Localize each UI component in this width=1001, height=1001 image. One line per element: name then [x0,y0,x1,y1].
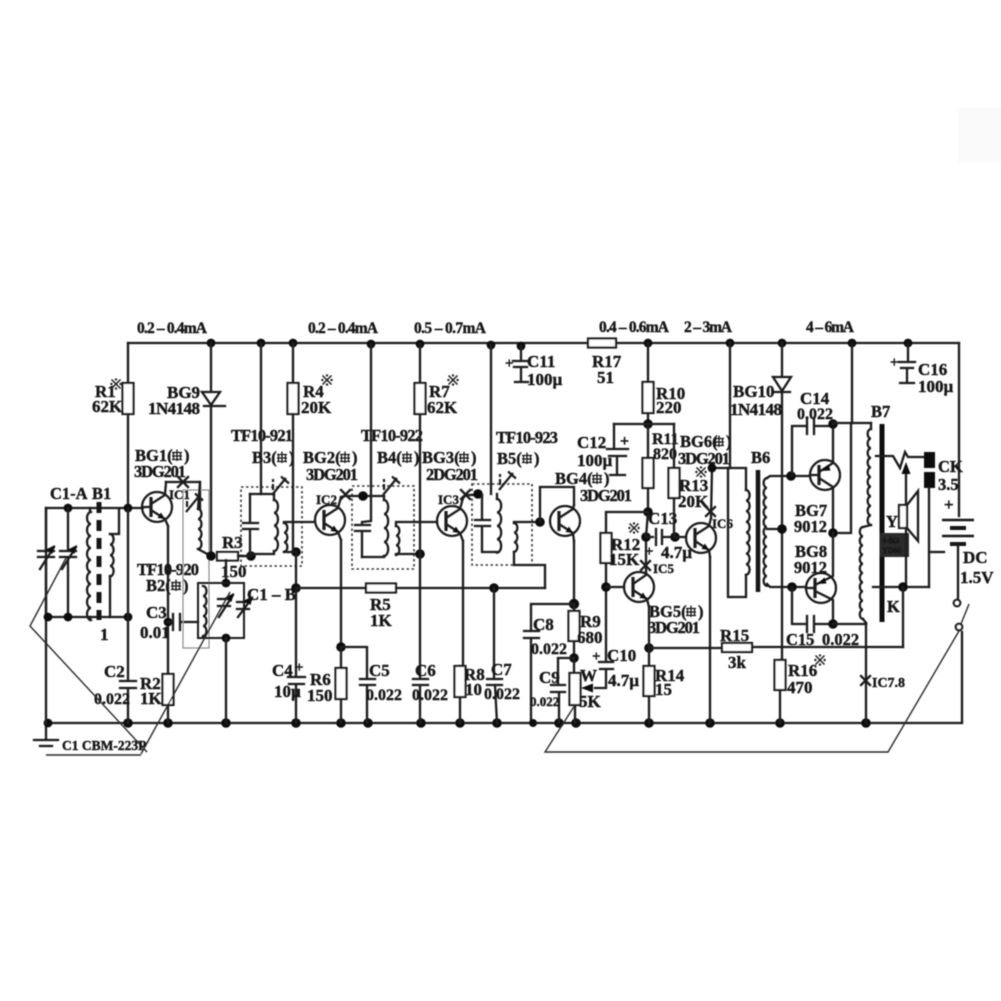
resistor R8 [455,666,466,697]
diode BG9 [202,343,225,556]
svg-text:IC6: IC6 [712,516,733,531]
wire AGC line right [396,587,545,589]
node dot BG5 base [601,582,611,592]
wire C1-B to ground bus [225,638,227,723]
diode BG10 [773,343,791,529]
svg-text:+: + [620,433,629,450]
oscillator coil B2 [198,509,202,549]
svg-text:20K: 20K [678,492,709,511]
current break IC2 (x) [341,490,350,499]
wire bus drop to B6 primary [729,343,731,468]
svg-text:C11: C11 [527,352,555,371]
svg-text:3.5: 3.5 [938,475,959,494]
svg-text:): ) [183,576,189,595]
gang link line C1-B [141,592,230,754]
wire BG4 emitter down to detector node [573,541,575,604]
resistor R9 [573,604,575,658]
wire bottom ground bus [46,722,962,724]
node dot C1-B bottom [222,634,231,643]
transformer B3 secondary coil [284,523,287,552]
resistor R1 [127,343,129,508]
svg-text:+: + [505,356,514,372]
capacitor C5 [341,647,375,723]
resistor R3 [217,552,238,561]
tuning slug B3 [272,477,289,496]
oscillator B2 shield box (thin) [183,490,209,648]
wire BG2 collector to B4 primary [341,496,384,497]
svg-text:C9: C9 [539,668,560,687]
wire feedback from R15 [902,587,904,647]
capacitor in B5 (tank) [475,495,497,552]
transformer B4 primary bottom rail [362,556,384,557]
svg-text:C1-A: C1-A [50,484,88,503]
wire center tap drop [833,423,851,533]
svg-text:C5: C5 [369,661,390,680]
transistor BG4 [550,505,580,541]
transformer B3 primary top rail [250,493,274,495]
svg-text:0.5 – 0.7mA: 0.5 – 0.7mA [414,320,487,337]
earphone jack CK3.5 [924,452,935,468]
svg-text:R3: R3 [222,533,243,552]
svg-text:IC5: IC5 [653,561,674,576]
svg-text:0.4 – 0.6mA: 0.4 – 0.6mA [599,319,670,336]
svg-text:B2(: B2( [146,576,171,595]
wire bus drop to B5 [490,345,492,494]
svg-text:0.2 – 0.4mA: 0.2 – 0.4mA [137,320,208,337]
transformer B3 primary bottom rail [238,551,274,556]
svg-text:1N4148: 1N4148 [730,400,782,419]
svg-text:62K: 62K [92,397,123,416]
transistor BG3 [437,498,467,541]
svg-text:0.022: 0.022 [366,687,402,704]
svg-text:1K: 1K [370,611,393,630]
transformer B3 primary coil [273,494,275,500]
capacitor C8 [524,604,574,723]
resistor R5 [366,584,396,593]
svg-text:C7: C7 [491,660,512,679]
resistor R7 [419,344,421,554]
svg-text:0.022: 0.022 [797,406,833,423]
wire jack return [928,488,930,587]
tuning slug B4 [383,477,400,496]
capacitor C3 [164,618,173,627]
svg-text:470: 470 [787,678,813,697]
tuning slug B2 [186,494,203,513]
callout underline C1 [46,754,141,756]
transformer B7 secondary winding [863,525,871,527]
node dot R9 bottom [569,653,579,663]
transformer B3 shield box [241,487,302,566]
svg-text:C12: C12 [577,433,606,452]
wire bias down to AGC line [295,552,297,588]
wire BG3 emitter down [460,541,463,723]
svg-text:B1: B1 [92,484,111,503]
capacitor C15 [792,587,833,632]
svg-text:62K: 62K [427,398,458,417]
switch K [954,600,961,607]
transformer B6 primary [730,468,746,490]
svg-text:3k: 3k [728,653,747,672]
wire B7 bottom to ground [865,623,867,723]
node dot C14/B7 top [828,419,838,429]
current break IC1 [178,477,188,487]
svg-text:4-8Ω: 4-8Ω [882,536,899,545]
node dot detector output [569,599,579,609]
variable capacitor C1-B gang [218,599,249,609]
transformer B5 shield box [472,484,532,565]
wire bus drop x=852 [851,343,853,423]
resistor R17 (inline) [588,339,616,348]
svg-text:680: 680 [577,628,603,647]
svg-text:R15: R15 [720,626,749,645]
current break IC6 (x) [706,507,715,516]
svg-text:3DG201: 3DG201 [580,486,632,505]
node dot push-pull center [828,528,838,538]
wire BG5 collector up [645,537,647,572]
svg-text:B4(: B4( [377,448,402,467]
svg-text:YD66: YD66 [882,546,902,555]
wire switch to ground bus [961,632,963,722]
wire B6 secondary center tap [767,528,782,530]
svg-text:0.022: 0.022 [484,686,520,703]
gang link line C1-A [30,558,147,752]
svg-text:0.022: 0.022 [412,687,448,704]
wire B5 secondary top to BG4 base [514,522,540,523]
transformer B4 secondary coil [396,526,399,555]
svg-text:C3: C3 [146,603,167,622]
wire BG8 collector to B7 bottom [833,623,866,625]
capacitor in B3 (tank) [243,494,258,554]
svg-text:9012: 9012 [794,558,827,577]
svg-text:2DG201: 2DG201 [426,465,478,484]
svg-text:): ) [414,448,420,467]
variable capacitor C1-A trimmer [60,508,76,617]
svg-text:15: 15 [655,680,672,699]
transformer B4 primary coil [383,496,385,500]
svg-text:3DG201: 3DG201 [306,465,358,484]
transformer B1 core (dashed bar) [97,502,102,620]
svg-text:10µ: 10µ [274,682,301,701]
wire B3 secondary top to BG2 base [284,522,315,523]
svg-text:+: + [890,355,899,371]
ground symbol [34,723,58,746]
current break IC5 (x) [641,561,650,570]
wire to C1-B box [225,560,227,583]
resistor R14 [644,643,654,653]
svg-text:0.022: 0.022 [530,694,559,709]
transformer B4 shield box [352,486,414,569]
wire BG3 collector to B5 [463,495,482,498]
svg-text:220: 220 [656,398,682,417]
potentiometer W 5K [574,658,575,723]
speaker spec block [880,533,909,557]
wire BG2 emitter down [340,540,342,647]
wire antenna top rail [46,507,143,509]
resistor R16 [780,529,782,723]
transformer B7 core bar [880,424,885,622]
node dots on top bus [207,339,216,348]
node dot R3 left [206,551,216,561]
svg-text:K: K [887,597,900,616]
svg-text:BG10: BG10 [733,382,775,401]
capacitor C9 [551,658,574,723]
svg-text:C8: C8 [533,615,554,634]
svg-text:+: + [645,544,654,560]
resistor R13 [674,424,675,537]
wire left vertical to ground [45,508,47,723]
node dot B3 bottom [246,551,256,561]
volume/switch link line [545,631,959,752]
svg-text:C6: C6 [415,661,436,680]
wire B3 secondary bottom to bias [284,551,296,553]
node dot BG6 base [670,532,680,542]
svg-text:0.01: 0.01 [140,623,170,642]
capacitor C11 (electrolytic on bus) [513,346,528,382]
resistor R6 [340,647,342,723]
svg-text:IC3: IC3 [438,492,459,507]
svg-text:+: + [592,649,601,665]
wire B5 secondary bottom to AGC [514,552,545,588]
svg-text:15K: 15K [609,550,640,569]
svg-text:B5(: B5( [497,449,522,468]
wire AGC line left [296,587,366,589]
wire B4 secondary bottom to bias [396,554,420,555]
resistor R2 [163,674,174,705]
transformer B6 secondary [764,478,767,586]
capacitor C16 (electrolytic) [899,343,915,383]
svg-text:C2: C2 [104,662,125,681]
svg-text:4.7µ: 4.7µ [608,671,639,690]
svg-text:1: 1 [100,625,109,644]
current break IC7,8 [861,676,870,685]
capacitor C12 (electrolytic) [607,424,628,475]
resistor R11 [647,424,649,512]
wire B7 primary top rail [833,423,871,424]
transistor BG2 [315,497,345,540]
svg-text:51: 51 [597,368,614,387]
svg-text:W: W [580,666,597,685]
svg-text:C1 – B: C1 – B [247,585,296,604]
svg-text:20K: 20K [301,398,332,417]
current break IC3 (x) [461,490,470,499]
wire bus drop to B4 [370,344,372,496]
svg-text:1K: 1K [140,689,163,708]
svg-text:100µ: 100µ [918,377,954,396]
svg-text:B7: B7 [871,402,890,421]
transistor BG1 [142,482,172,526]
svg-text:DC: DC [963,548,988,567]
capacitor C7 [487,588,502,723]
svg-text:+: + [295,660,304,676]
wire BG5 base [606,586,624,588]
transformer B1 primary winding [89,508,91,512]
transformer B1 secondary winding [110,534,114,576]
svg-text:1N4148: 1N4148 [148,399,200,418]
resistor R15 (feedback) [649,647,903,648]
node dot feedback tap [898,582,908,592]
svg-text:IC1: IC1 [169,487,190,502]
svg-text:0.022: 0.022 [94,691,130,708]
svg-text:150: 150 [221,562,247,581]
svg-text:150: 150 [307,686,333,705]
transistor BG7 [810,424,840,533]
svg-text:B6: B6 [751,448,770,467]
node dot R10 bottom [643,419,653,429]
wire speaker feed [876,452,924,468]
svg-text:TF10-923: TF10-923 [496,428,558,447]
svg-text:IC2: IC2 [316,492,337,507]
wire node to C12/R13 [614,423,674,425]
wire BG6 collector up to B6 [711,468,730,518]
variable capacitor C1-B box [198,583,244,638]
capacitor C10 (electrolytic) [599,587,613,669]
oscillator winding in C1-B box [203,586,207,636]
svg-text:B3(: B3( [252,448,277,467]
transistor BG8 [806,533,836,624]
svg-text:Y: Y [886,512,898,531]
wire bus drop to B3 primary [260,343,262,494]
wire B4 secondary top to BG3 base [396,522,437,526]
capacitor in B4 (tank) [355,496,371,557]
node dot R11 bottom [643,507,653,517]
svg-text:+: + [944,495,954,514]
svg-text:C1 CBM-223P: C1 CBM-223P [62,738,146,753]
svg-text:C10: C10 [607,646,636,665]
transistor BG6 [686,518,716,557]
svg-text:2 – 3mA: 2 – 3mA [684,319,733,336]
svg-text:0.022: 0.022 [531,641,567,658]
wire top bus left of R17 [128,342,588,344]
capacitor C2 [120,508,136,723]
svg-text:C4: C4 [272,661,293,680]
wire BG1 collector to oscillator [166,482,200,509]
wire BG6 emitter to ground [709,557,711,723]
svg-text:0.2 – 0.4mA: 0.2 – 0.4mA [308,320,379,337]
node dots on bottom bus [44,719,53,728]
speaker Y [899,505,907,528]
node dot BG5 collector [641,532,651,542]
svg-text:IC7.8: IC7.8 [872,676,905,691]
resistor R4 [292,343,294,552]
capacitor C14 [792,418,833,476]
wire B6 secondary bottom tap [767,584,806,587]
svg-text:5K: 5K [579,692,602,711]
transistor BG5 [624,572,654,607]
capacitor C4 (electrolytic) [288,588,305,723]
svg-text:10: 10 [465,680,482,699]
capacitor C13 (electrolytic coupling) [646,529,675,545]
svg-text:100µ: 100µ [577,451,613,470]
tuning slug B5 [499,472,516,491]
capacitor C6 [413,554,428,723]
transformer B5 secondary coil [514,523,517,552]
node dot antenna top [64,504,73,513]
svg-text:1.5V: 1.5V [960,568,994,587]
wire B6 secondary top tap [767,476,810,478]
wire BG4 collector-base fold [540,487,574,522]
transformer B6 core bar [756,470,761,592]
svg-text:3DG201: 3DG201 [678,449,730,468]
svg-text:C15: C15 [786,630,814,649]
faint scan artifact top right [958,108,1001,162]
resistor R12 (feedback) [606,512,648,587]
svg-text:3DG201: 3DG201 [648,618,700,637]
wire bus to battery [958,343,960,516]
transformer B5 primary coil [496,494,498,499]
wire top bus right of R17 [616,342,959,344]
resistor R10 [647,343,649,424]
wire speaker return rail [873,586,929,588]
transformer B7 primary winding [870,423,872,429]
svg-text:4 – 6mA: 4 – 6mA [806,319,855,336]
svg-text:0.022: 0.022 [822,630,859,649]
svg-text:100µ: 100µ [527,370,563,389]
svg-text:9012: 9012 [794,517,827,536]
wire BG1 emitter vertical [167,526,169,723]
svg-text:): ) [534,449,540,468]
variable capacitor C1-A gang [38,508,54,617]
wire antenna bottom rail [46,616,128,618]
speaker + arrow [905,470,907,505]
wire to BG6 base [675,536,686,538]
